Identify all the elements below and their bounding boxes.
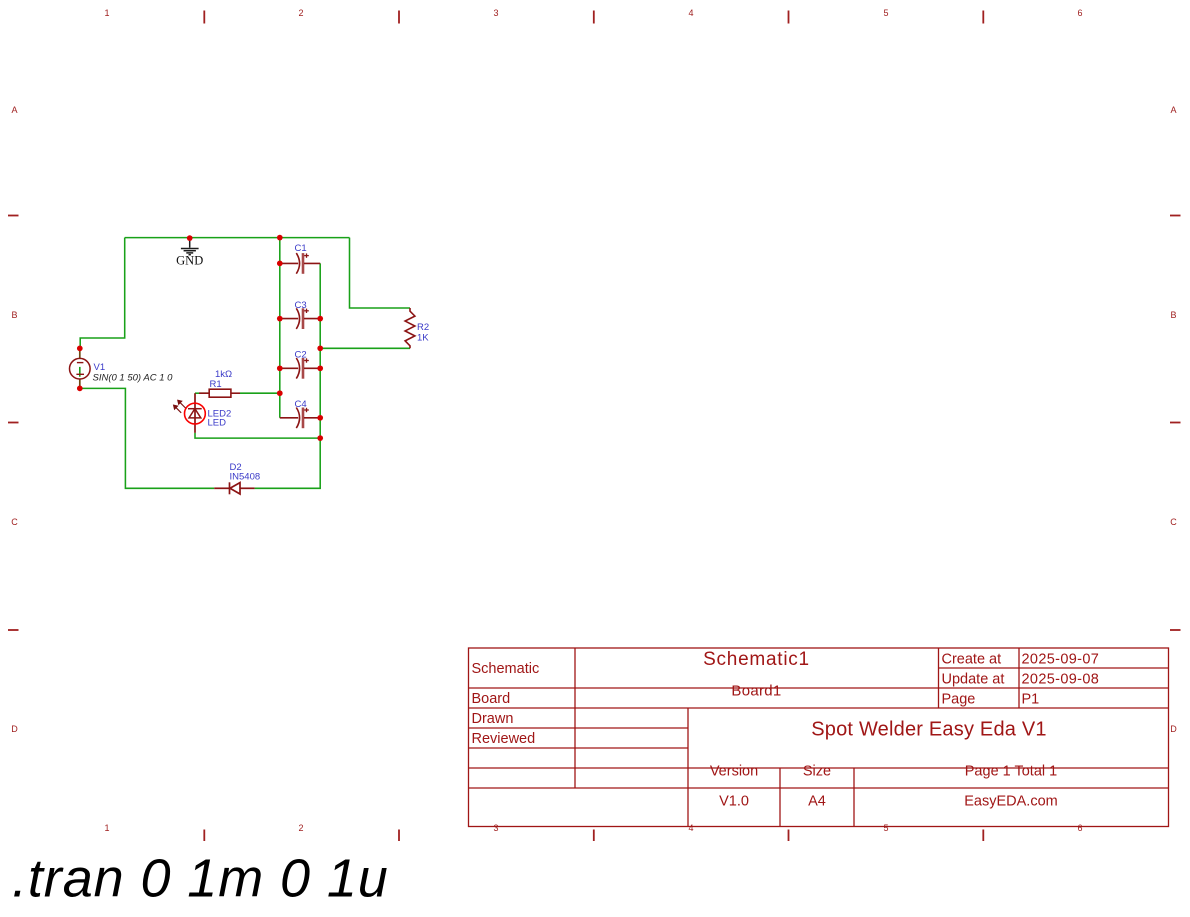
- svg-text:3: 3: [493, 823, 498, 833]
- junction C4 right: [317, 415, 323, 421]
- svg-text:1: 1: [104, 823, 109, 833]
- svg-text:C: C: [11, 517, 18, 527]
- svg-text:1: 1: [104, 8, 109, 18]
- wire from V1 minus to bottom rail to D2 anode side: [80, 388, 214, 488]
- svg-text:A: A: [11, 105, 17, 115]
- junction C2 right: [317, 365, 323, 371]
- svg-text:Update at: Update at: [942, 672, 1005, 688]
- svg-text:6: 6: [1077, 823, 1082, 833]
- svg-text:Reviewed: Reviewed: [472, 731, 536, 747]
- svg-text:2: 2: [298, 823, 303, 833]
- svg-text:A4: A4: [808, 794, 826, 810]
- voltage source V1: [70, 348, 91, 388]
- resistor R1: [199, 389, 240, 397]
- svg-text:C: C: [1170, 517, 1177, 527]
- svg-text:Schematic1: Schematic1: [703, 649, 810, 670]
- svg-text:B: B: [11, 310, 17, 320]
- svg-text:C3: C3: [295, 300, 307, 311]
- capacitor C3: [280, 308, 320, 329]
- svg-text:2025-09-07: 2025-09-07: [1022, 652, 1100, 668]
- svg-text:Size: Size: [803, 764, 831, 780]
- wire left capacitor bus: [279, 238, 281, 418]
- svg-text:SIN(0 1 50) AC 1 0: SIN(0 1 50) AC 1 0: [93, 373, 174, 384]
- svg-text:C4: C4: [295, 399, 307, 410]
- wire right bus from C1 down to D2 cathode side: [255, 263, 321, 488]
- svg-text:A: A: [1170, 105, 1176, 115]
- junction C1 left: [277, 261, 283, 267]
- svg-text:Board1: Board1: [731, 683, 781, 700]
- svg-text:LED: LED: [208, 418, 227, 429]
- wire from R2 bottom to right bus: [320, 347, 410, 349]
- svg-text:5: 5: [883, 823, 888, 833]
- svg-text:D: D: [1170, 724, 1177, 734]
- svg-text:V1.0: V1.0: [719, 794, 749, 810]
- wire from R1 to left bus: [240, 392, 280, 394]
- svg-text:Board: Board: [472, 691, 511, 707]
- ground GND: [181, 238, 199, 255]
- svg-text:C2: C2: [295, 350, 307, 361]
- wire top rail: [125, 237, 350, 239]
- svg-text:R1: R1: [210, 379, 222, 390]
- svg-text:R2: R2: [417, 322, 429, 333]
- svg-text:P1: P1: [1022, 692, 1040, 708]
- svg-text:4: 4: [688, 8, 693, 18]
- svg-text:C1: C1: [295, 243, 307, 254]
- svg-text:Drawn: Drawn: [472, 711, 514, 727]
- resistor R2: [405, 308, 415, 348]
- svg-text:2: 2: [298, 8, 303, 18]
- svg-text:2025-09-08: 2025-09-08: [1022, 672, 1100, 688]
- svg-text:D: D: [11, 724, 18, 734]
- capacitor C1: [280, 253, 320, 274]
- svg-text:IN5408: IN5408: [230, 472, 261, 483]
- svg-text:GND: GND: [176, 254, 203, 268]
- svg-text:4: 4: [688, 823, 693, 833]
- svg-text:Page: Page: [942, 692, 976, 708]
- svg-text:.tran 0 1m 0 1u: .tran 0 1m 0 1u: [12, 849, 389, 909]
- junction rail / left bus: [277, 235, 283, 241]
- svg-text:Schematic: Schematic: [472, 661, 540, 677]
- junction C3 left: [277, 316, 283, 322]
- wire from rail down-left to V1 plus: [80, 238, 125, 349]
- junction V1 bottom: [77, 386, 83, 392]
- svg-text:B: B: [1170, 310, 1176, 320]
- junction C2 left: [277, 365, 283, 371]
- junction C3 right: [317, 316, 323, 322]
- svg-text:V1: V1: [94, 362, 106, 373]
- svg-text:Page 1 Total 1: Page 1 Total 1: [965, 764, 1057, 780]
- svg-text:EasyEDA.com: EasyEDA.com: [964, 794, 1057, 810]
- svg-text:Spot Welder Easy Eda V1: Spot Welder Easy Eda V1: [811, 719, 1046, 741]
- junction R1 / left bus: [277, 390, 283, 396]
- wire from rail to R2 top: [350, 238, 411, 308]
- wire R1 left corner: [195, 392, 209, 394]
- junction R2 wire / right bus: [317, 345, 323, 351]
- svg-text:6: 6: [1077, 8, 1082, 18]
- svg-text:1K: 1K: [417, 333, 429, 344]
- svg-text:Create at: Create at: [942, 652, 1002, 668]
- svg-text:3: 3: [493, 8, 498, 18]
- junction LED return / right bus: [317, 435, 323, 441]
- capacitor C4: [280, 408, 320, 429]
- junction V1 top: [77, 346, 83, 352]
- diode D2: [214, 482, 254, 494]
- capacitor C2: [280, 358, 320, 379]
- svg-text:Version: Version: [710, 764, 758, 780]
- wire from LED cathode to right bus: [195, 433, 320, 438]
- LED LED2: [174, 393, 206, 433]
- junction on rail at GND: [187, 235, 193, 241]
- svg-text:5: 5: [883, 8, 888, 18]
